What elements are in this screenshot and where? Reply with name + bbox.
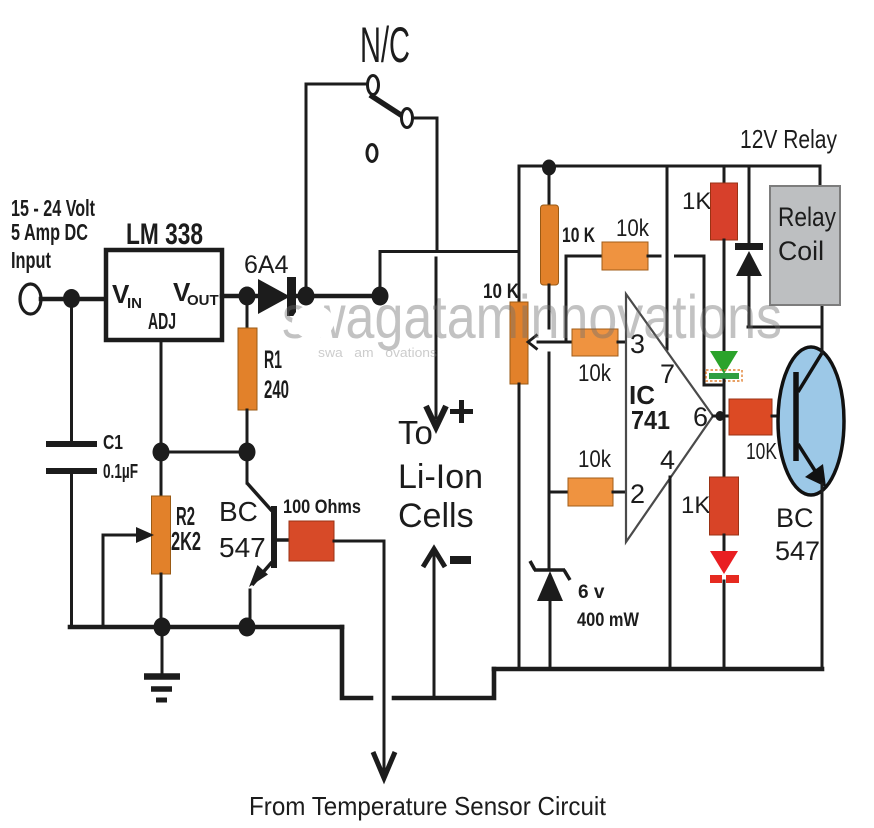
switch pole contact (367, 145, 377, 162)
svg-text:5 Amp DC: 5 Amp DC (11, 219, 88, 245)
wire minus return arrow (423, 549, 445, 698)
wire N/C left leg (306, 84, 366, 296)
svg-text:Cells: Cells (398, 497, 474, 535)
op-amp U2 IC741 (626, 166, 713, 669)
minus symbol (450, 556, 471, 564)
preset 10K pot (483, 280, 528, 384)
svg-text:C1: C1 (103, 432, 123, 454)
input label (11, 195, 95, 273)
LED green (706, 351, 742, 416)
wire C1 to bottom bus (70, 474, 73, 627)
wire 12V top rail (519, 166, 820, 251)
relay coil box (770, 186, 840, 305)
resistor 10K base (729, 399, 777, 464)
node ADJ junction (153, 443, 170, 462)
transistor Q1 BC547 (219, 452, 289, 627)
svg-text:Li-Ion: Li-Ion (398, 458, 483, 496)
node ground junction Q1 (239, 618, 256, 637)
svg-text:0.1µF: 0.1µF (103, 461, 138, 483)
node rail junction (542, 160, 556, 176)
diode D1 6A4 (244, 251, 296, 316)
svg-text:6 v: 6 v (578, 582, 605, 603)
svg-text:10k: 10k (578, 446, 612, 473)
svg-text:Relay: Relay (778, 202, 836, 232)
switch N/C contact left (368, 76, 379, 95)
svg-text:10k: 10k (578, 360, 612, 387)
wire 10K divider top (548, 168, 551, 207)
svg-text:400 mW: 400 mW (577, 610, 639, 631)
svg-text:547: 547 (219, 532, 266, 563)
transistor Q2 BC547 (775, 347, 844, 566)
resistor 10k pin2 (549, 446, 626, 506)
resistor 10k feedback (566, 215, 724, 385)
switch lever (370, 95, 404, 117)
wire junction down to C1 (70, 298, 73, 441)
wire pin6 output (713, 415, 729, 418)
resistor 1K bottom (681, 477, 739, 551)
svg-text:10K: 10K (746, 438, 777, 464)
svg-text:100 Ohms: 100 Ohms (283, 497, 361, 518)
wire ADJ to R1 bottom (161, 451, 247, 454)
svg-text:2: 2 (630, 479, 645, 509)
capacitor C1 (46, 432, 138, 483)
wire output node to 1K bottom (723, 416, 726, 477)
diode D3 flyback (735, 166, 763, 327)
svg-text:6A4: 6A4 (244, 251, 289, 279)
svg-text:10 K: 10 K (562, 224, 595, 247)
input terminal (20, 284, 41, 314)
node ground junction R2 (154, 618, 171, 637)
wire N/C right leg (413, 118, 437, 251)
node R1-R2 junction (239, 443, 256, 462)
svg-text:LM 338: LM 338 (126, 218, 203, 251)
wire plus output arrow (426, 258, 446, 427)
resistor 1K top (682, 166, 738, 351)
svg-text:4: 4 (660, 445, 675, 475)
wire coil bottom to collector (748, 326, 822, 329)
svg-text:Coil: Coil (778, 236, 824, 266)
wire ADJ pin down (160, 340, 163, 452)
svg-text:BC: BC (219, 496, 258, 527)
resistor 100 Ohms (283, 497, 361, 561)
LED red (710, 551, 739, 669)
watermark (282, 283, 782, 351)
wire wiper arrow to pot (528, 335, 573, 350)
wire bus right of gap (394, 669, 494, 698)
svg-text:6: 6 (693, 402, 708, 432)
wire emitter down (821, 484, 824, 669)
svg-text:15 - 24 Volt: 15 - 24 Volt (11, 195, 95, 221)
wire VOUT to diode (222, 294, 258, 299)
svg-text:547: 547 (775, 536, 820, 566)
wire pot top (518, 251, 521, 302)
svg-text:swagataminnovations: swagataminnovations (282, 283, 782, 351)
svg-text:swa am ovations: swa am ovations (318, 345, 438, 360)
node output junction (716, 411, 725, 421)
svg-text:2K2: 2K2 (171, 526, 201, 556)
svg-text:7: 7 (660, 359, 675, 389)
node output riser junction (372, 287, 389, 306)
switch N/C contact right (402, 109, 413, 128)
wire 10K to base (772, 415, 796, 418)
node input junction (63, 289, 80, 308)
svg-text:BC: BC (776, 503, 814, 533)
regulator U1 LM338 (106, 218, 222, 340)
wire collector up (821, 303, 824, 353)
svg-text:N/C: N/C (360, 17, 410, 73)
svg-text:ADJ: ADJ (148, 308, 176, 334)
svg-text:From Temperature Sensor Circui: From Temperature Sensor Circuit (249, 791, 607, 821)
wire bottom-left ground bus (70, 625, 342, 630)
wire input to LM338 (41, 297, 106, 302)
wire 100 Ohms to temp sensor line (334, 541, 384, 776)
svg-text:741: 741 (631, 405, 670, 435)
ground (144, 627, 180, 700)
wire R1 bottom (246, 410, 249, 452)
svg-text:R1: R1 (264, 346, 282, 374)
svg-text:12V Relay: 12V Relay (740, 124, 837, 154)
preset R2 2K2 (152, 496, 202, 574)
svg-text:Input: Input (11, 247, 51, 273)
wire bus step to right section (342, 627, 371, 698)
wire R2 top (160, 452, 163, 496)
svg-text:To: To (398, 414, 433, 451)
wire R1 top (246, 296, 249, 328)
wire diode to junctions (296, 294, 380, 299)
plus symbol (450, 400, 473, 423)
arrow temp sensor (373, 752, 395, 778)
label To Li-Ion Cells (398, 414, 483, 535)
wire pot bottom (518, 384, 521, 669)
svg-text:240: 240 (264, 376, 289, 404)
svg-text:1K: 1K (681, 492, 710, 519)
svg-text:1K: 1K (682, 188, 711, 215)
watermark blob (292, 305, 334, 339)
zener D2 6v (530, 561, 639, 669)
svg-text:10k: 10k (616, 215, 650, 242)
resistor R1 240 (238, 328, 289, 410)
wire riser to output rail (380, 252, 519, 297)
wire divider column down (548, 285, 551, 570)
node N/C branch junction (298, 287, 315, 306)
svg-text:IN: IN (127, 295, 142, 312)
svg-text:OUT: OUT (187, 292, 219, 309)
node R1 top junction (239, 287, 256, 306)
resistor 10k pin3 (572, 329, 626, 387)
wire R2 bottom (160, 574, 163, 627)
wire right ground bus (494, 667, 822, 672)
resistor 10K divider (541, 205, 596, 285)
wire R2 wiper arrow (103, 527, 154, 625)
